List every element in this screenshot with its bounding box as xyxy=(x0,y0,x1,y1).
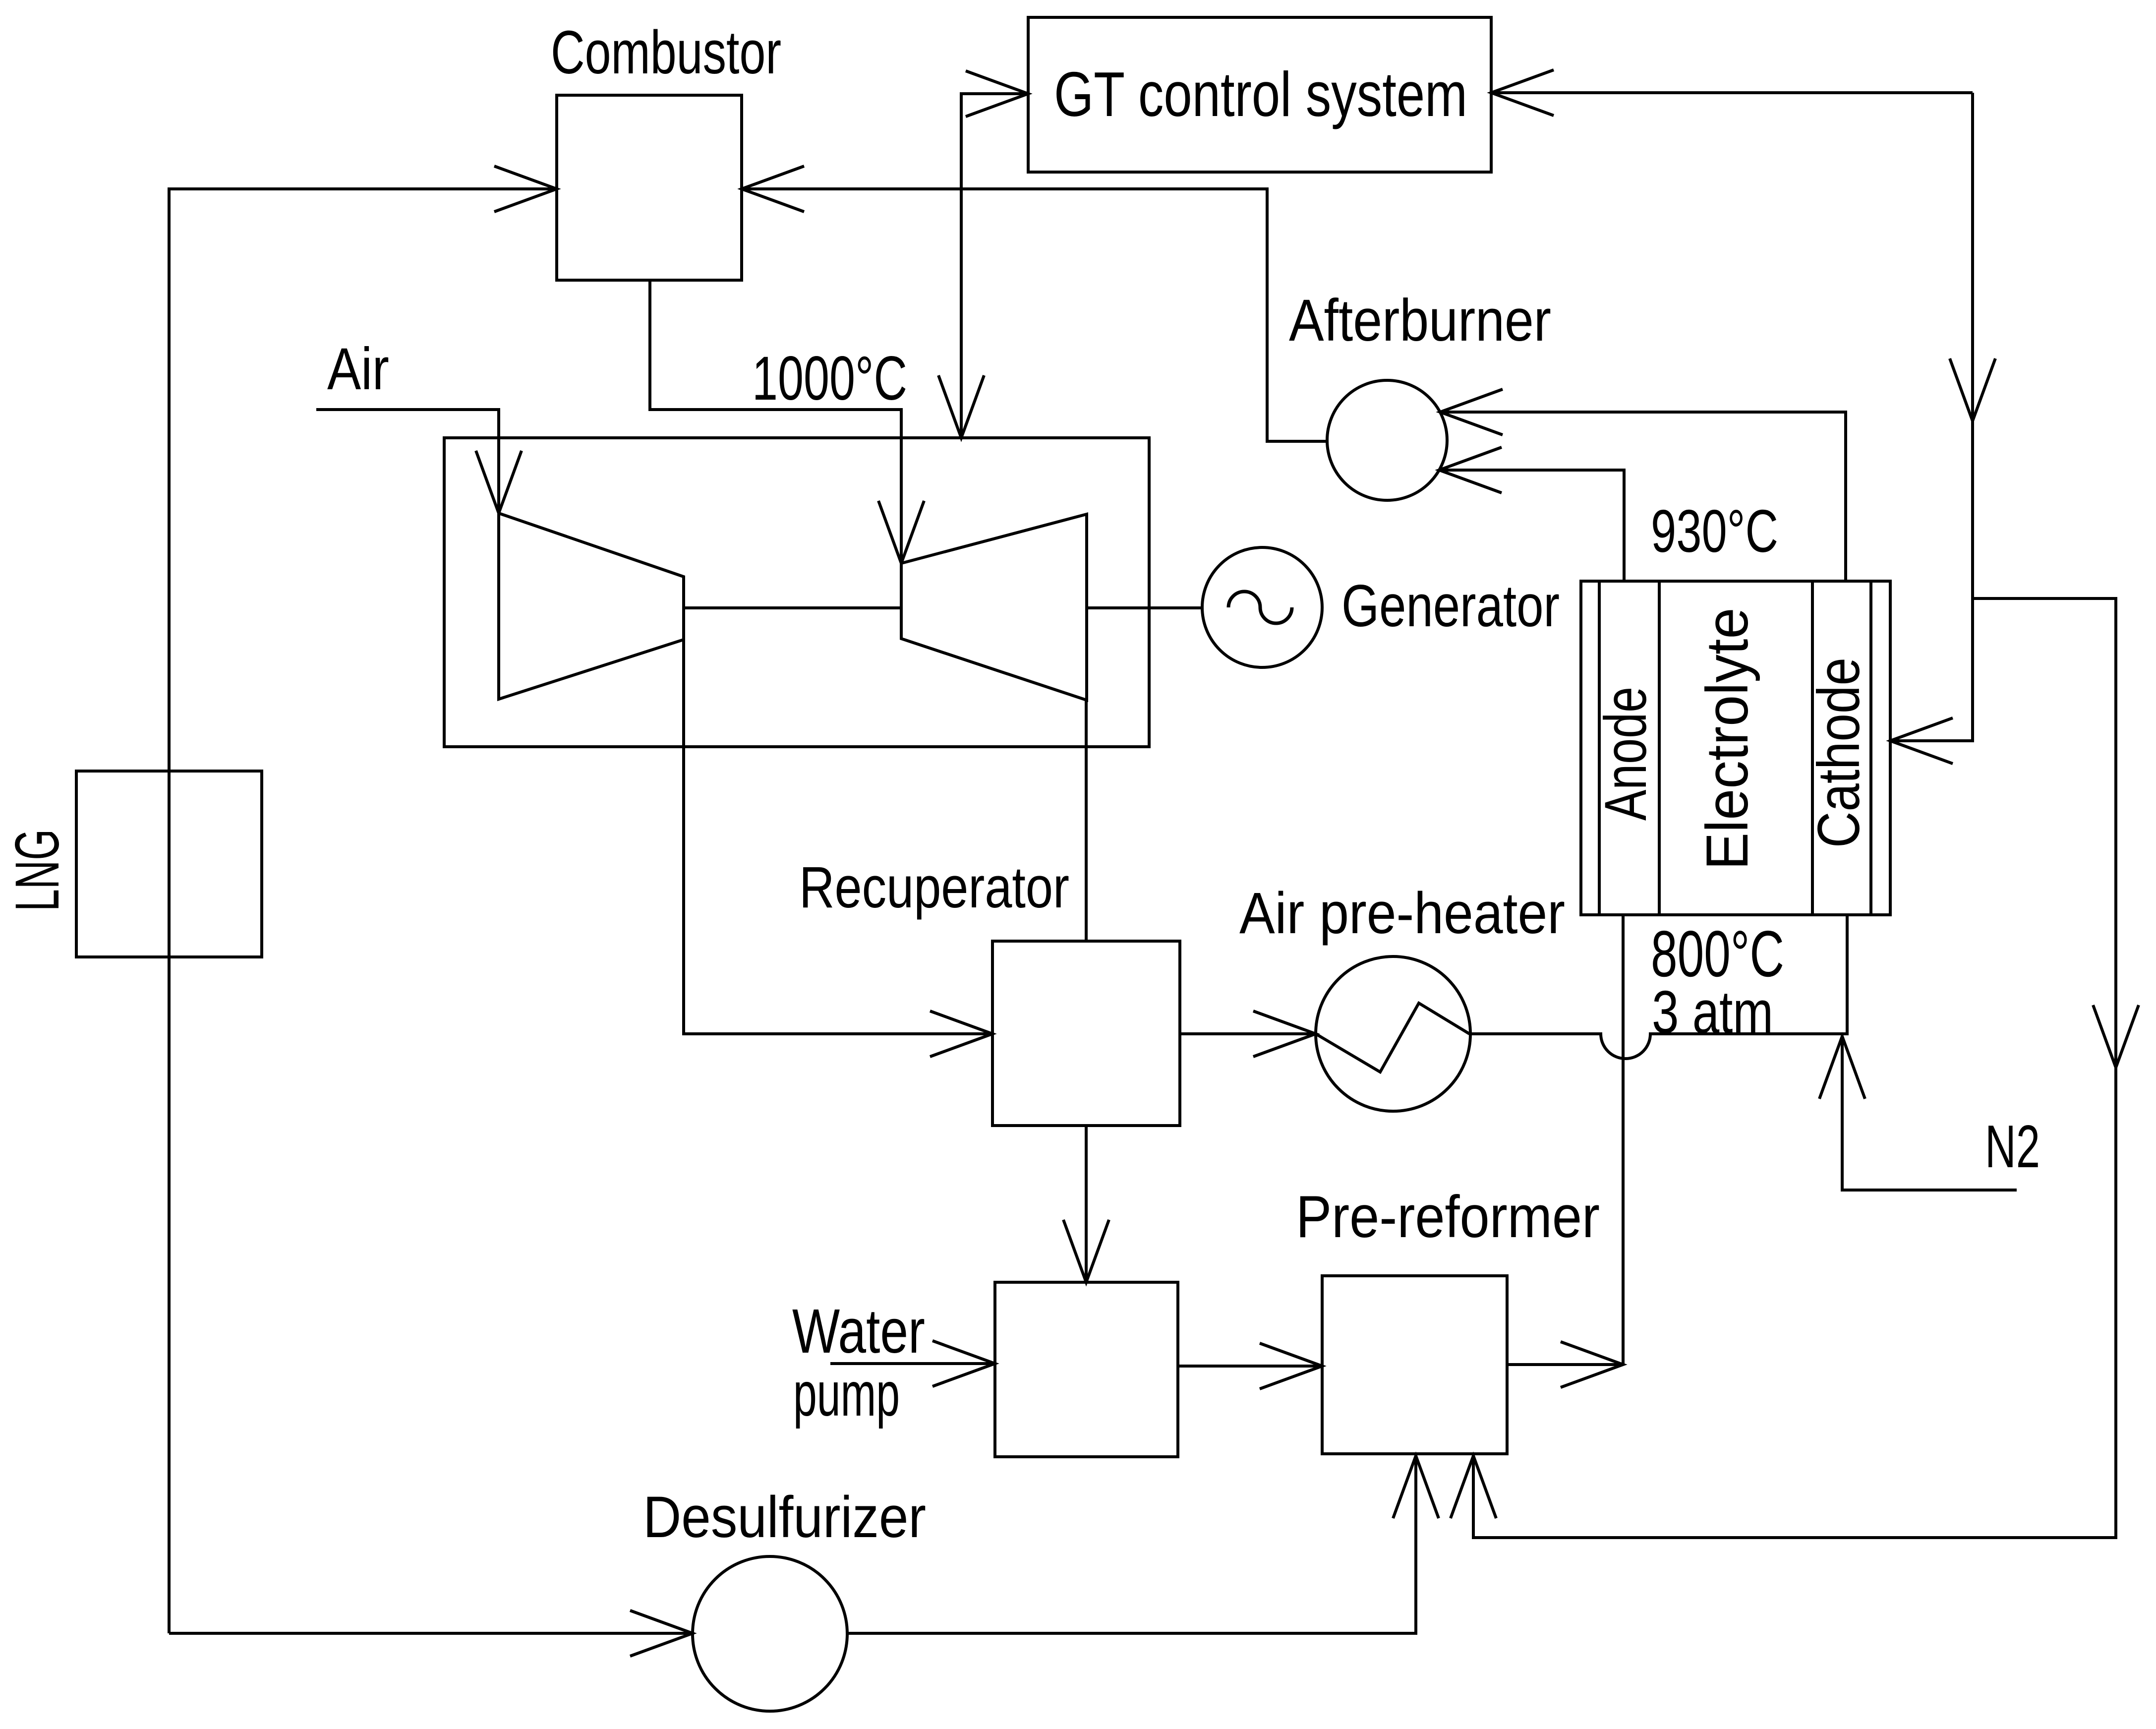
arrow into afterburner upper right xyxy=(1440,389,1503,435)
water pump box xyxy=(995,1282,1178,1457)
wire turbine exhaust to recuperator top xyxy=(1085,700,1088,941)
svg-text:3 atm: 3 atm xyxy=(1652,978,1773,1046)
svg-text:Water: Water xyxy=(792,1296,925,1366)
turbine trapezoid xyxy=(901,514,1087,700)
wire compressor outlet to recuperator xyxy=(684,640,992,1034)
GT control system box xyxy=(1028,17,1491,172)
arrow into GT control right xyxy=(1491,70,1554,116)
arrow into desulfurizer xyxy=(630,1610,693,1656)
arrow into combustor right xyxy=(742,166,804,212)
SOFC stack outer box xyxy=(1581,581,1890,915)
SOFC inner partition lines xyxy=(1599,581,1871,915)
desulfurizer circle xyxy=(693,1556,847,1711)
wire desulfurizer to pre-reformer bottom xyxy=(847,1456,1416,1633)
gas turbine casing box xyxy=(444,438,1149,747)
svg-text:Cathode: Cathode xyxy=(1806,657,1872,848)
svg-text:LNG: LNG xyxy=(3,829,72,911)
wire afterburner to combustor xyxy=(742,189,1327,441)
arrow into GT control left xyxy=(966,71,1028,117)
svg-text:1000°C: 1000°C xyxy=(752,344,907,413)
air pre-heater circle xyxy=(1316,956,1470,1111)
combustor box xyxy=(557,95,742,280)
afterburner circle xyxy=(1327,380,1447,500)
wire air pre-heater to cathode bottom with hop xyxy=(1470,915,1847,1059)
wire anode bottom line xyxy=(1622,915,1625,1365)
generator sine symbol xyxy=(1228,592,1292,623)
wire N2 inlet xyxy=(1842,1036,2017,1190)
svg-text:pump: pump xyxy=(793,1359,900,1429)
arrow into anode junction xyxy=(1561,1342,1623,1387)
wire GT control left signal xyxy=(961,94,1028,438)
generator circle xyxy=(1202,547,1322,667)
svg-text:Air: Air xyxy=(327,336,389,402)
svg-text:Pre-reformer: Pre-reformer xyxy=(1296,1184,1600,1250)
wire right line to GT control xyxy=(1491,91,1973,94)
wire anode outlet to afterburner xyxy=(1439,470,1624,581)
wire pre-reformer outlet to anode line xyxy=(1507,1363,1623,1366)
svg-text:GT control system: GT control system xyxy=(1054,59,1467,129)
arrow into air pre-heater xyxy=(1253,1011,1316,1057)
air pre-heater zigzag xyxy=(1316,1003,1469,1072)
pre-reformer box xyxy=(1322,1276,1507,1454)
wire cathode outlet to afterburner xyxy=(1440,412,1846,581)
shaft turbine-generator xyxy=(1087,606,1202,609)
wire LNG riser and fuel line to combustor xyxy=(169,189,557,1633)
wire LNG bottom to desulfurizer xyxy=(169,1632,693,1635)
svg-text:Electrolyte: Electrolyte xyxy=(1694,608,1760,870)
wire recuperator to air pre-heater xyxy=(1180,1032,1316,1035)
recuperator box xyxy=(992,941,1180,1126)
LNG box xyxy=(76,771,262,957)
arrow into water pump left xyxy=(932,1341,995,1386)
arrow into afterburner lower right xyxy=(1439,447,1502,493)
flow arrow on right vertical xyxy=(1950,358,1995,421)
flow arrow on far right vertical xyxy=(2093,1005,2139,1068)
svg-text:Desulfurizer: Desulfurizer xyxy=(643,1485,926,1550)
svg-text:Air pre-heater: Air pre-heater xyxy=(1239,881,1565,946)
arrow into water pump top xyxy=(1063,1220,1109,1282)
arrow into GT casing top xyxy=(938,375,984,438)
svg-text:Afterburner: Afterburner xyxy=(1289,287,1551,354)
wire air inlet xyxy=(316,410,499,513)
svg-text:930°C: 930°C xyxy=(1651,497,1778,565)
svg-text:Generator: Generator xyxy=(1341,573,1560,639)
arrow into compressor inlet xyxy=(476,451,522,513)
wire right vertical to cathode xyxy=(1890,93,1973,741)
wire recuperator bottom to water pump xyxy=(1085,1126,1088,1282)
arrow up into pre-reformer bottom right xyxy=(1451,1456,1496,1518)
svg-text:Anode: Anode xyxy=(1592,687,1659,821)
svg-text:Combustor: Combustor xyxy=(551,19,781,87)
wire right branch to pre-reformer bottom xyxy=(1473,598,2116,1538)
arrow into cathode right xyxy=(1890,718,1953,764)
arrow into pre-reformer left xyxy=(1260,1343,1322,1389)
arrow up into pre-reformer bottom left xyxy=(1393,1456,1439,1518)
wire water inlet xyxy=(830,1362,995,1365)
arrow into turbine inlet xyxy=(878,501,924,563)
svg-text:N2: N2 xyxy=(1985,1113,2040,1180)
wire combustor to turbine inlet xyxy=(650,280,901,563)
svg-text:Recuperator: Recuperator xyxy=(799,855,1069,920)
arrow into combustor left xyxy=(494,166,557,212)
shaft compressor-turbine xyxy=(684,606,901,609)
compressor trapezoid xyxy=(499,513,684,699)
arrow up N2 into cathode line xyxy=(1819,1036,1865,1099)
arrow into recuperator left xyxy=(930,1011,992,1057)
wire water pump to pre-reformer xyxy=(1178,1365,1322,1368)
